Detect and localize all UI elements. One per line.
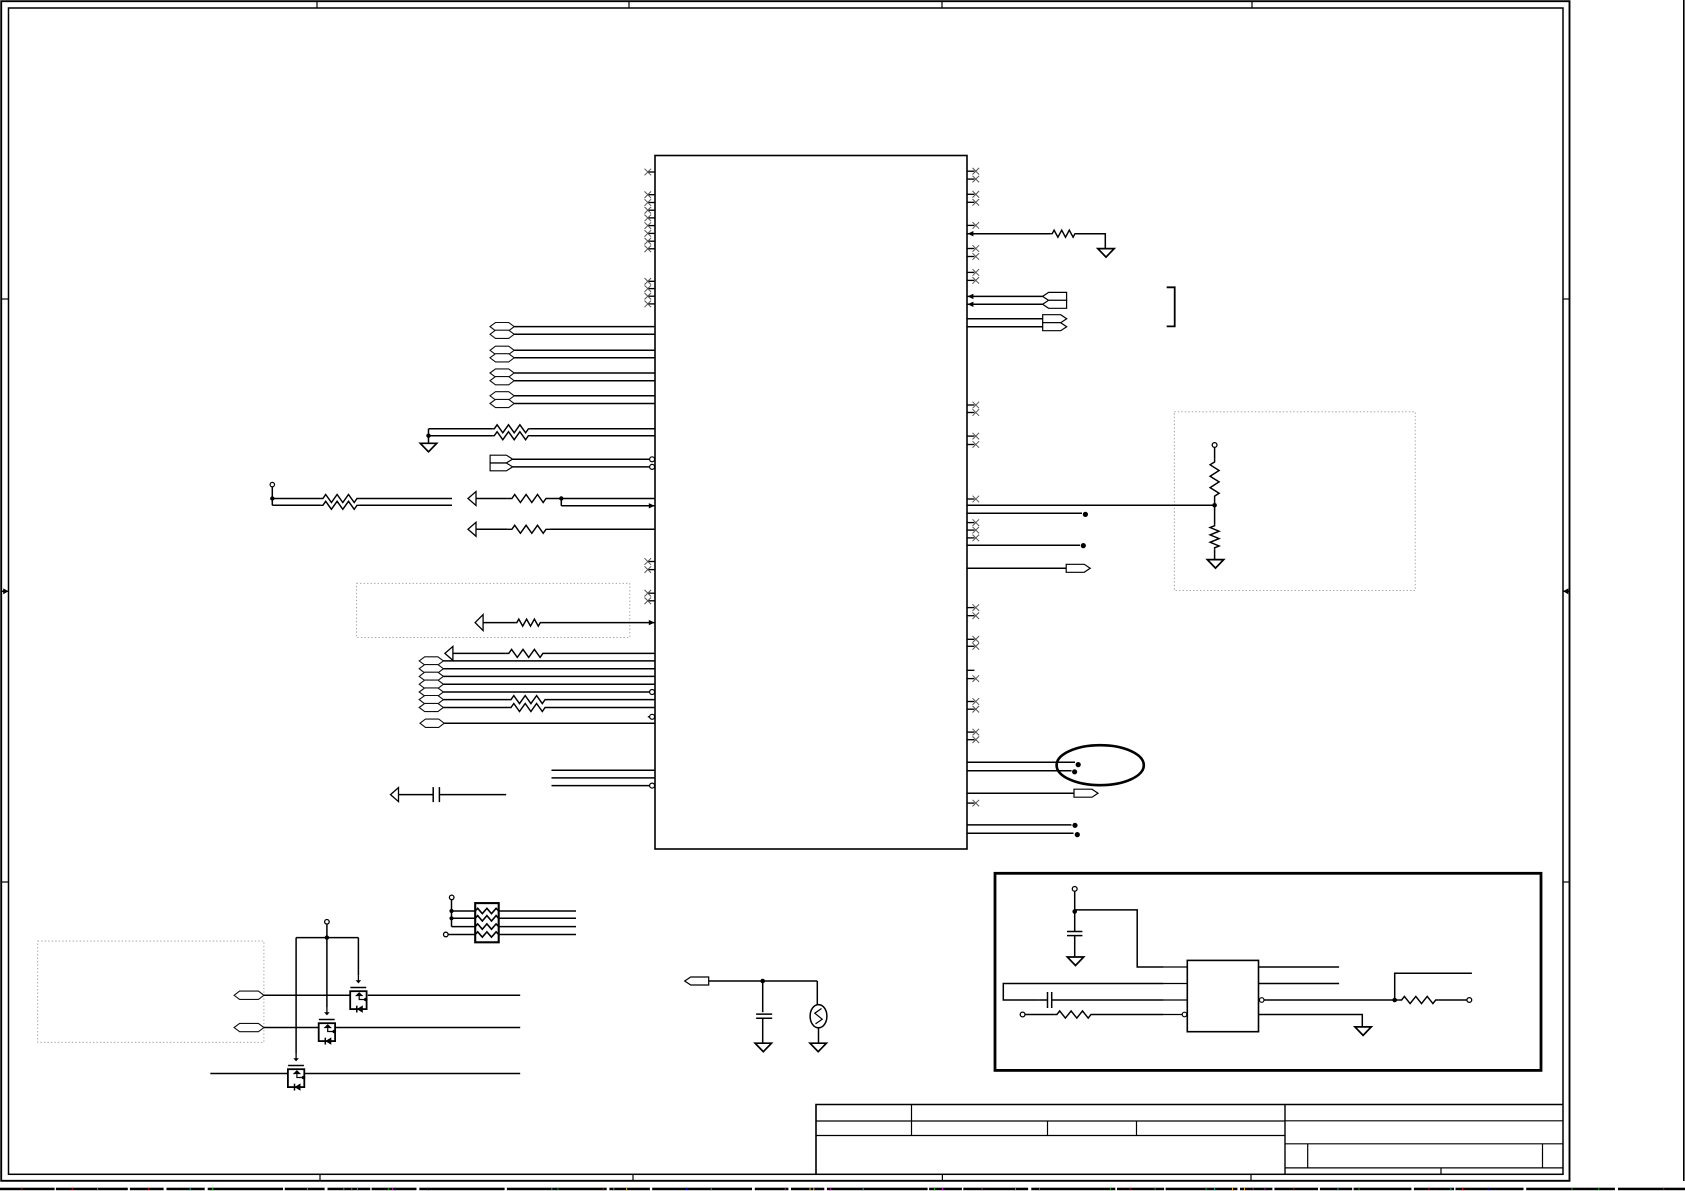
U1 right no-connect pin 24: [967, 708, 974, 710]
junction: [449, 916, 453, 920]
frame zone tick left 2: [1, 881, 8, 883]
U1 inverted pin bubble mid: [650, 690, 655, 695]
U1 left no-connect pin 2: [648, 194, 655, 196]
bus tag C2: [234, 1023, 264, 1031]
gate drop Q2: [326, 924, 328, 1007]
divider top circle: [1212, 443, 1217, 448]
U1 right no-connect pin 2: [967, 178, 974, 180]
wire up and right: [1395, 973, 1472, 1000]
RN1 element 3: [475, 924, 498, 929]
U1 left no-connect pin 17: [648, 600, 655, 602]
bus tag pair 1 upper: [490, 323, 514, 331]
junction: [426, 434, 430, 438]
U2 left pin 1: [1164, 966, 1188, 968]
dashed box option 2: [1174, 412, 1415, 591]
wire C4 to U2 pin3: [1052, 999, 1164, 1001]
RN1 left vertical: [451, 900, 453, 927]
title block outline: [816, 1105, 1563, 1175]
wire B7 right segment: [548, 707, 655, 709]
ground GND4: [755, 1043, 771, 1052]
resistor R2: [492, 432, 530, 440]
resistor R8: [506, 649, 546, 657]
wire arrow5 to cap: [399, 794, 434, 796]
wire B4: [443, 683, 655, 685]
U1 right no-connect pin 1: [967, 170, 974, 172]
wire net A upper: [429, 428, 493, 430]
bus tag B1: [419, 657, 443, 665]
port circle P1: [1072, 887, 1077, 892]
wire B2: [443, 668, 655, 670]
wire net dot 4: [967, 770, 1072, 772]
capacitor C1: [432, 787, 434, 802]
dashed box option 3: [38, 941, 264, 1042]
resistor R7: [515, 619, 542, 626]
wire C2 to ground: [762, 1018, 764, 1043]
U2 left pin 4 bubble: [1182, 1012, 1187, 1017]
wire net dot 5: [967, 824, 1072, 826]
wire T7 to corner: [709, 980, 818, 982]
U1 left no-connect pin 9: [648, 248, 655, 250]
U1 right no-connect pin 16: [967, 529, 974, 531]
bus tag B2: [419, 665, 443, 673]
transistor Q1 gate arrow: [357, 975, 359, 982]
U1 right no-connect pin 26: [967, 739, 974, 741]
wire branch to U1: [561, 505, 655, 507]
wire corner down to DS1: [816, 981, 818, 1005]
U1 left no-connect pin 11: [648, 288, 655, 290]
wire U1 to R11: [967, 233, 1051, 235]
wire cap to end: [439, 794, 506, 796]
U1 left no-connect pin 12: [648, 295, 655, 297]
wire U1 to T4: [967, 326, 1043, 328]
bus tag B4: [419, 680, 443, 688]
U2 right pin 3 wire: [1264, 999, 1399, 1001]
frame zone tick top 2: [628, 1, 630, 8]
transistor Q1 gate bar: [350, 987, 366, 989]
title block left row line 2: [816, 1135, 1285, 1137]
input arrow 2: [468, 522, 476, 536]
bus tag pair 2 lower: [490, 354, 514, 362]
wire stub L3: [552, 785, 650, 787]
U1 right no-connect pin 6: [967, 248, 974, 250]
IC U2 body: [1187, 960, 1258, 1031]
resistor R13: [1210, 524, 1219, 549]
bus tag pair 4 upper: [490, 392, 514, 400]
transistor Q2 gate arrow: [326, 1007, 328, 1014]
frame zone tick left 1: [1, 298, 8, 300]
bus tag pair 4 lower: [490, 399, 514, 407]
junction: [449, 909, 453, 913]
resistor R6: [508, 525, 551, 533]
title block right row line 2: [1285, 1143, 1563, 1145]
connector tag J1a: [490, 455, 512, 463]
junction: [1072, 909, 1077, 914]
wire bottom net: [210, 1073, 288, 1075]
wire B6 right segment: [548, 699, 655, 701]
RN1 element 4: [475, 932, 498, 937]
title block bottom cell tick: [1440, 1168, 1442, 1174]
junction: [325, 935, 329, 939]
U1 right no-connect pin 5: [967, 224, 974, 226]
gate supply circle: [325, 920, 330, 925]
page right edge line: [1683, 0, 1685, 1181]
resistor R15: [1399, 996, 1439, 1003]
RN1 supply circle: [449, 895, 454, 900]
gate rail: [296, 937, 358, 939]
U1 left no-connect pin 16: [648, 592, 655, 594]
wire net B lower: [272, 504, 320, 506]
U1 right stub pin: [967, 669, 974, 671]
U1 left no-connect pin 4: [648, 209, 655, 211]
wire T1 to U1: [967, 295, 1043, 297]
wire arrow3 to resistor: [483, 622, 515, 624]
wire R12 to node: [1214, 499, 1216, 524]
title block divider vertical: [1284, 1105, 1286, 1175]
wire C3 to ground: [1074, 936, 1076, 957]
bus tag C1: [234, 991, 264, 999]
capacitor C3: [1067, 931, 1082, 933]
capacitor C2: [756, 1013, 772, 1015]
wire U2 pin2 loop: [1003, 984, 1163, 1001]
U1 left no-connect pin 13: [648, 303, 655, 305]
U1 inverted pin bubble: [650, 457, 655, 462]
input tag right-pointing T3: [1043, 315, 1067, 323]
ground GND7: [1355, 1027, 1371, 1036]
U1 right no-connect pin 7: [967, 256, 974, 258]
wire node vertical: [271, 487, 273, 506]
U1 inverted pin bubble: [650, 464, 655, 469]
bus tag pair 2 upper: [490, 346, 514, 354]
resistor R9: [508, 696, 548, 704]
junction: [760, 979, 765, 984]
input arrow 5: [391, 788, 399, 802]
U2 left pin 3: [1164, 999, 1188, 1001]
U2 right pin 1 wire: [1259, 966, 1340, 968]
transistor Q1 body: [350, 991, 366, 1009]
bus tag pair 3 upper: [490, 369, 514, 377]
wire B7 left segment: [443, 707, 508, 709]
ground GND1: [420, 443, 436, 452]
U1 left no-connect pin 5: [648, 217, 655, 219]
resistor R1: [492, 425, 530, 433]
transistor Q3 channel arrow: [293, 1070, 301, 1074]
RN1 right wire 4: [499, 934, 576, 936]
input arrow 4: [445, 646, 453, 660]
RN1 left wire 2: [452, 917, 476, 919]
wire branch down: [560, 499, 562, 506]
title block right row line 3: [1285, 1167, 1563, 1169]
output tag left-pointing T2: [1043, 300, 1067, 308]
input tag right-pointing T4: [1043, 323, 1067, 331]
RN1 right wire 1: [499, 910, 576, 912]
frame zone tick top 4: [1251, 1, 1253, 8]
transistor Q2 gate bar: [319, 1019, 335, 1021]
RN1 element 1: [475, 908, 498, 913]
title block left cell divider c: [1136, 1121, 1138, 1136]
resistor R14: [1055, 1011, 1093, 1018]
wire C1 net: [264, 994, 352, 996]
wire B3: [443, 675, 655, 677]
title block left cell divider b: [1047, 1121, 1049, 1136]
U1 right no-connect pin 14: [967, 498, 974, 500]
resistor R4: [321, 501, 360, 509]
U1 right no-connect pin 8: [967, 271, 974, 273]
wire R14 to U2 pin4: [1093, 1014, 1164, 1016]
wire R15 to P3: [1439, 999, 1467, 1001]
wire P1 down: [1074, 891, 1076, 931]
gate drop Q3: [295, 938, 297, 1054]
surge arrester DS1: [810, 1005, 827, 1028]
wire U1 to T3: [967, 318, 1043, 320]
U1 left no-connect pin 8: [648, 240, 655, 242]
U1 inverted pin stub: [648, 716, 650, 718]
bus tag B3: [419, 672, 443, 680]
frame zone tick bottom 3: [941, 1174, 943, 1181]
resistor R10: [508, 704, 548, 712]
U1 right no-connect pin 21: [967, 645, 974, 647]
frame centre mark left: [1, 590, 8, 592]
U2 right pin 3 bubble: [1259, 998, 1264, 1003]
U1 left no-connect pin 3: [648, 202, 655, 204]
wire stub L1: [552, 769, 656, 771]
frame zone tick bottom 1: [319, 1174, 321, 1181]
U1 right no-connect pin 3: [967, 193, 974, 195]
title block left cell divider a: [911, 1105, 913, 1136]
bottom caption strip: [0, 1188, 55, 1191]
U1 left no-connect pin 7: [648, 232, 655, 234]
transistor Q2 body: [319, 1023, 335, 1041]
wire net dot 6: [967, 832, 1074, 834]
transistor Q2 channel arrow: [324, 1024, 332, 1028]
title block right cell divider b: [1542, 1144, 1544, 1168]
output tag right T6: [967, 792, 1074, 794]
wire B5: [443, 691, 655, 693]
wire stub L2: [552, 777, 656, 779]
U2 left pin 2: [1164, 983, 1188, 985]
wire resistor2 to U1: [550, 528, 655, 530]
frame zone tick top 1: [316, 1, 318, 8]
ground GND3: [1207, 560, 1223, 569]
bracket mark: [1167, 287, 1175, 326]
dashed box option 1: [357, 583, 630, 637]
wire arrow1 to resistor: [476, 498, 508, 500]
wire C2 net: [264, 1027, 320, 1029]
bus tag B6: [419, 696, 443, 704]
wire R11 corner: [1076, 234, 1105, 249]
wire B1: [443, 660, 655, 662]
wire J1b to U1: [513, 466, 650, 468]
U1 inverted pin bubble low: [650, 783, 655, 788]
ground GND5: [810, 1043, 826, 1052]
transistor Q3 gate arrow: [295, 1053, 297, 1060]
U1 right no-connect pin 9: [967, 279, 974, 281]
U1 left no-connect pin 6: [648, 225, 655, 227]
RN1 element 2: [475, 916, 498, 921]
U2 left pin 4: [1164, 1014, 1188, 1016]
frame centre mark right: [1563, 590, 1570, 592]
port circle P2: [1020, 1012, 1025, 1017]
wire J1a to U1: [513, 458, 650, 460]
U1 right no-connect pin 25: [967, 731, 974, 733]
highlight ellipse: [1057, 745, 1144, 785]
transistor Q3 gate bar: [288, 1065, 304, 1067]
ground GND2: [1098, 249, 1114, 258]
junction: [270, 496, 274, 500]
subcircuit block border: [995, 873, 1541, 1070]
resistor R12: [1210, 459, 1219, 500]
wire B8: [444, 722, 655, 724]
wire B6 left segment: [443, 699, 508, 701]
wire T2 to U1: [967, 303, 1043, 305]
U1 right no-connect pin 11: [967, 412, 974, 414]
U1 right no-connect pin 18: [967, 607, 974, 609]
RN1 right wire 2: [499, 917, 576, 919]
U2 right pin 2 wire: [1259, 983, 1340, 985]
junction: [559, 496, 563, 500]
wire net dot 2: [967, 544, 1080, 546]
transistor Q3 body: [288, 1069, 304, 1087]
junction: [1392, 998, 1397, 1003]
gate drop Q1: [357, 938, 359, 976]
port circle P3: [1467, 998, 1472, 1003]
connector tag J1b: [490, 463, 512, 471]
U1 right no-connect pin 17: [967, 537, 974, 539]
frame zone tick right 2: [1563, 881, 1570, 883]
input arrow 3: [475, 615, 483, 631]
wire net A lower: [429, 435, 493, 437]
IC U1 body: [655, 156, 967, 850]
U1 right no-connect pin 15: [967, 522, 974, 524]
RN1 left wire 1: [452, 910, 476, 912]
U1 right no-connect pin 27: [967, 802, 974, 804]
U1 left no-connect pin 15: [648, 569, 655, 571]
U1 right no-connect pin 10: [967, 404, 974, 406]
output tag right T5: [967, 567, 1066, 569]
transistor Q1 channel arrow: [355, 992, 363, 996]
U1 left no-connect pin 14: [648, 561, 655, 563]
junction: [1212, 503, 1217, 508]
title block right row line 1: [1285, 1120, 1563, 1122]
input arrow 1: [468, 492, 476, 506]
wire P1 rail: [1075, 910, 1164, 967]
output tag left T7: [685, 977, 709, 985]
wire R8 to U1: [546, 652, 655, 654]
wire P2 to R14: [1025, 1014, 1055, 1016]
wire arrow4 segment: [453, 652, 506, 654]
resistor R5: [508, 495, 551, 503]
node stub circle: [270, 482, 274, 486]
U1 right no-connect pin 13: [967, 444, 974, 446]
RN1 right wire 3: [499, 926, 576, 928]
RN1 left wire 3: [452, 926, 476, 928]
wire net dot 1: [967, 512, 1082, 514]
U1 left no-connect pin 10: [648, 280, 655, 282]
U2 right pin 4 wire: [1259, 1015, 1363, 1027]
title block right cell divider a: [1307, 1144, 1309, 1168]
frame zone tick bottom 2: [632, 1174, 634, 1181]
transistor Q1 body diode: [357, 1005, 363, 1012]
ground GND6: [1067, 957, 1083, 966]
U1 right no-connect pin 4: [967, 201, 974, 203]
U1 right no-connect pin 22: [967, 678, 974, 680]
output tag left-pointing T1: [1043, 292, 1067, 300]
resistor R11: [1051, 230, 1077, 237]
wire net B upper: [272, 498, 320, 500]
bus tag B5: [419, 688, 443, 696]
wire resistor3 to U1: [542, 622, 655, 624]
transistor Q3 body diode: [295, 1083, 301, 1090]
U1 right no-connect pin 23: [967, 701, 974, 703]
frame zone tick right 1: [1563, 298, 1570, 300]
transistor Q2 body diode: [325, 1037, 331, 1044]
bus tag pair 3 lower: [490, 377, 514, 385]
frame zone tick top 3: [941, 1, 943, 8]
resistor network RN1 body: [475, 903, 499, 942]
U1 left no-connect pin 1: [648, 171, 655, 173]
U1 right no-connect pin 20: [967, 638, 974, 640]
wire net dot 3: [967, 761, 1075, 763]
frame zone tick bottom 4: [1250, 1174, 1252, 1181]
bus tag B7: [419, 703, 443, 711]
resistor R3: [321, 495, 360, 503]
wire arrow2 to resistor: [476, 528, 508, 530]
wire to ground: [428, 429, 430, 444]
U1 right no-connect pin 19: [967, 615, 974, 617]
title block left row line 1: [816, 1120, 1285, 1122]
U1 right no-connect pin 12: [967, 435, 974, 437]
wire R13 to ground: [1214, 549, 1216, 559]
wire U1 to divider node: [967, 504, 1215, 506]
wire resistor to U1: [550, 498, 655, 500]
bus tag pair 1 lower: [490, 330, 514, 338]
wire DS1 to ground: [818, 1028, 820, 1043]
wire circle to R12: [1214, 447, 1216, 458]
RN1 left wire 4: [448, 934, 475, 936]
capacitor C4: [1047, 992, 1049, 1008]
wire junction to C2: [762, 981, 764, 1012]
bus tag B8: [420, 719, 444, 727]
RN1 input circle: [444, 932, 449, 937]
